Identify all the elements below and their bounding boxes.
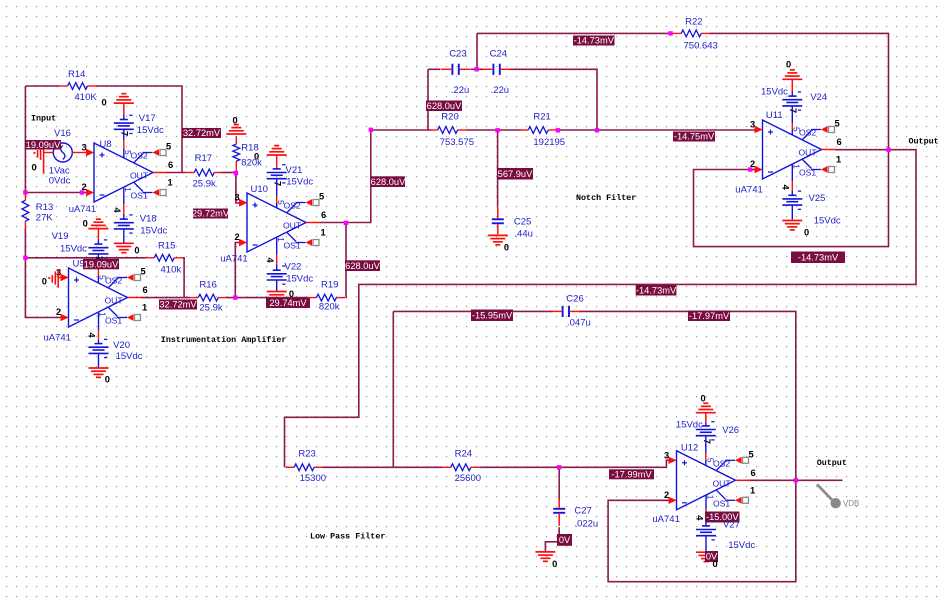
bias voltage label 628.0uV [371, 176, 406, 187]
junction R20/R21/C25 node [495, 128, 499, 132]
resistor R24 [442, 464, 479, 471]
svg-text:15Vdc: 15Vdc [116, 351, 143, 362]
svg-text:4: 4 [781, 185, 791, 191]
wire U12 pin4 to V27 [705, 495, 707, 509]
wire R16 to R19 row [226, 297, 307, 299]
svg-text:628.0uV: 628.0uV [427, 101, 462, 111]
ground 0 net above V21 [267, 146, 287, 155]
svg-text:5: 5 [706, 458, 716, 463]
svg-text:6: 6 [143, 285, 148, 295]
bias voltage label 0V [557, 534, 572, 546]
svg-text:29.72mV: 29.72mV [192, 209, 230, 219]
svg-text:0: 0 [786, 60, 791, 70]
svg-text:OUT: OUT [105, 296, 124, 306]
svg-text:R22: R22 [685, 17, 702, 28]
svg-text:1: 1 [276, 237, 286, 242]
junction U10 out / R19 [344, 221, 348, 225]
svg-text:0: 0 [102, 98, 107, 108]
probe VDB [817, 484, 859, 508]
svg-text:.047u: .047u [567, 318, 591, 329]
svg-text:2: 2 [664, 490, 669, 500]
svg-text:6: 6 [837, 137, 842, 147]
wire V24 to U11 pin7 [791, 106, 793, 123]
bias voltage label -14.75mV [673, 132, 715, 142]
svg-text:5: 5 [835, 119, 840, 129]
DC source V22 [267, 266, 287, 284]
bias voltage label 628.0uV [426, 101, 462, 112]
svg-text:C25: C25 [514, 217, 531, 228]
svg-text:V25: V25 [809, 193, 826, 204]
wire V19 to U9 pin7 [97, 254, 99, 268]
svg-text:Output: Output [817, 458, 847, 468]
ground 0 net above V24 [782, 70, 802, 79]
DC source V18 [114, 215, 134, 233]
svg-text:1: 1 [142, 303, 147, 313]
junction R24/C27 node [557, 465, 561, 469]
svg-text:-14.73mV: -14.73mV [798, 252, 839, 262]
wire R21 to U11 pin3 [556, 129, 755, 131]
svg-text:6: 6 [168, 160, 173, 170]
junction C23/C24 node [474, 67, 478, 71]
svg-text:OUT: OUT [130, 171, 149, 181]
svg-text:2: 2 [235, 232, 240, 242]
AC source V16 [34, 143, 95, 174]
svg-text:15Vdc: 15Vdc [140, 226, 167, 237]
svg-text:6: 6 [321, 210, 326, 220]
wire U12 pin3 arrow [669, 457, 677, 464]
wire U10 pin3 arrow [239, 199, 247, 206]
svg-text:R19: R19 [321, 280, 338, 291]
svg-text:5: 5 [141, 267, 146, 277]
svg-text:V20: V20 [113, 340, 130, 351]
svg-text:-17.99mV: -17.99mV [611, 470, 652, 480]
ground 0 below V22 [267, 291, 287, 293]
ground 0 net above V17 [114, 94, 134, 103]
svg-text:0: 0 [83, 219, 88, 229]
wire U11 pin2 arrow [755, 166, 763, 173]
svg-text:uA741: uA741 [44, 333, 71, 344]
DC source V17 [114, 115, 134, 133]
bias voltage label 0V [705, 551, 718, 562]
svg-text:1: 1 [321, 228, 326, 238]
svg-text:0V: 0V [559, 535, 571, 545]
svg-text:V27: V27 [723, 520, 740, 531]
svg-text:3: 3 [750, 120, 755, 130]
junction U8 out / R18 / U10 pin3 [234, 171, 238, 175]
source 0V at U9 pin3 [48, 269, 68, 288]
wire U12 pin2 arrow [669, 497, 677, 504]
bias voltage label -14.73mV [636, 285, 677, 296]
svg-text:15300: 15300 [300, 473, 326, 484]
svg-text:628.0uV: 628.0uV [371, 177, 406, 187]
wire U12 output row [749, 479, 843, 481]
bias voltage label 567.9uV [497, 168, 533, 180]
svg-text:VDB: VDB [843, 499, 859, 508]
svg-text:1: 1 [750, 485, 755, 495]
ground 0 net above V26 [696, 403, 716, 412]
resistor R19 [308, 294, 345, 301]
wire U9 pin4 to V20 [98, 313, 100, 330]
svg-text:.22u: .22u [491, 85, 510, 96]
bias voltage label 32.72mV [159, 300, 197, 310]
svg-text:5: 5 [166, 142, 171, 152]
svg-text:R14: R14 [68, 69, 85, 80]
svg-text:25600: 25600 [455, 473, 481, 484]
svg-text:15Vdc: 15Vdc [60, 244, 87, 255]
wire R15 to U9 out row [183, 258, 184, 298]
svg-text:OUT: OUT [283, 221, 302, 231]
wire U11 pin4 to V25 [791, 165, 793, 181]
ground 0 net above V19 [88, 219, 108, 228]
svg-text:0: 0 [42, 277, 47, 287]
wire V22 to ground [276, 280, 278, 292]
svg-text:410k: 410k [161, 265, 182, 276]
svg-text:C23: C23 [449, 49, 466, 60]
wire U8 output row [166, 172, 186, 174]
svg-text:0: 0 [32, 163, 37, 173]
svg-text:4: 4 [87, 333, 97, 339]
wire R18 bottom to node [235, 170, 237, 173]
resistor R22 [673, 30, 710, 37]
ground 0 net above R18 [226, 125, 246, 134]
bias voltage label 29.72mV [192, 209, 230, 219]
svg-text:7: 7 [702, 439, 712, 444]
svg-text:27K: 27K [36, 213, 54, 224]
svg-text:R24: R24 [455, 449, 472, 460]
svg-text:1: 1 [706, 495, 716, 500]
junction top row / R22 [668, 31, 672, 35]
wire top row to R22 [477, 32, 672, 34]
svg-text:15Vdc: 15Vdc [286, 177, 313, 188]
svg-text:C26: C26 [566, 294, 583, 305]
svg-text:OS1: OS1 [284, 241, 301, 251]
wire V26 ground stub [705, 413, 707, 423]
wire R22 to right vertical [694, 33, 889, 246]
svg-text:R20: R20 [441, 112, 458, 123]
bias voltage label -17.97mV [688, 311, 730, 322]
wire U11 pin3 arrow [755, 126, 763, 133]
resistor R17 [186, 169, 223, 176]
svg-text:-15.95mV: -15.95mV [472, 310, 513, 320]
DC source V19 [88, 240, 108, 258]
svg-text:R15: R15 [158, 241, 175, 252]
wire C23-C24 node [471, 68, 484, 70]
svg-text:V16: V16 [54, 128, 71, 139]
svg-text:15Vdc: 15Vdc [286, 274, 313, 285]
svg-text:4: 4 [695, 515, 705, 521]
svg-text:29.74mV: 29.74mV [269, 298, 307, 308]
DC source V25 [782, 191, 802, 209]
svg-text:5: 5 [98, 275, 108, 280]
resistor R15 [146, 254, 183, 261]
svg-text:R16: R16 [199, 280, 216, 291]
svg-text:V18: V18 [140, 214, 157, 225]
bias voltage label -15.95mV [471, 310, 513, 322]
wire V25 to ground [791, 205, 793, 220]
junction U9 out / R16 / U10 pin2 [233, 295, 237, 299]
svg-text:0: 0 [713, 559, 718, 569]
junction U11 out node [886, 148, 890, 152]
svg-text:25.9k: 25.9k [193, 179, 216, 190]
svg-text:820k: 820k [319, 302, 340, 313]
wire U10 pin3 drop [236, 173, 240, 204]
svg-text:0: 0 [105, 375, 110, 385]
svg-text:-17.97mV: -17.97mV [689, 311, 730, 321]
wire C23 left stub [428, 68, 441, 70]
resistor R21 [520, 127, 557, 134]
ground 0 below C25 [488, 235, 508, 244]
svg-text:19.09uV: 19.09uV [84, 259, 119, 269]
bias voltage label 628.0uV [345, 260, 381, 271]
svg-text:3: 3 [664, 450, 669, 460]
wire U9 pin2 arrow [61, 314, 69, 321]
junction input net / U8 pin2 [23, 190, 27, 194]
wire V21 ground stub [276, 155, 278, 168]
svg-text:25.9k: 25.9k [199, 303, 222, 314]
svg-text:3: 3 [235, 193, 240, 203]
capacitor C27 [553, 499, 565, 526]
wire U10 output row [320, 130, 431, 223]
wire V18 to ground [123, 229, 125, 243]
wire U8 pin4 to V18 [123, 188, 125, 204]
wire R20 to R21 [466, 129, 521, 131]
DC source V21 [267, 165, 287, 183]
svg-text:Low Pass Filter: Low Pass Filter [310, 532, 385, 542]
svg-text:.22u: .22u [451, 85, 470, 96]
svg-text:V21: V21 [286, 165, 303, 176]
svg-text:uA741: uA741 [69, 204, 96, 215]
svg-text:6: 6 [751, 468, 756, 478]
svg-text:.44u: .44u [514, 229, 533, 240]
wire V17 ground stub [123, 103, 125, 114]
svg-text:-14.75mV: -14.75mV [674, 132, 715, 142]
wire C27 branch top [558, 467, 560, 499]
svg-text:OS1: OS1 [131, 191, 148, 201]
op-amp U11 [750, 108, 842, 191]
svg-text:753.575: 753.575 [440, 137, 474, 148]
junction C24 branch node [595, 128, 599, 132]
wire V19 ground stub [97, 229, 99, 240]
svg-text:192195: 192195 [533, 137, 565, 148]
op-amp U12 [664, 439, 756, 522]
junction U10 out corner [369, 128, 373, 132]
bias voltage label -14.73mV [573, 36, 615, 46]
wire R19 to vertical riser [345, 223, 347, 298]
svg-text:15Vdc: 15Vdc [728, 540, 755, 551]
svg-text:uA741: uA741 [735, 185, 762, 196]
svg-text:U12: U12 [681, 443, 698, 454]
svg-text:410K: 410K [75, 92, 98, 103]
svg-text:567.9uV: 567.9uV [498, 169, 533, 179]
op-amp U9 [56, 256, 148, 339]
bias voltage label -15.00V [705, 512, 740, 523]
svg-text:32.72mV: 32.72mV [183, 128, 221, 138]
wire caps node to top row [476, 33, 478, 69]
wire C26 row right feedback loop [579, 311, 796, 581]
svg-text:U8: U8 [100, 139, 112, 150]
resistor R13 [22, 192, 29, 229]
svg-text:5: 5 [319, 192, 324, 202]
resistor R23 [286, 464, 323, 471]
wire R14 top row [25, 85, 59, 87]
svg-text:4: 4 [265, 258, 275, 264]
svg-text:Output: Output [909, 137, 939, 147]
svg-text:1: 1 [836, 155, 841, 165]
wire C25 branch [497, 131, 499, 206]
wire V17 to pin7 [123, 115, 125, 120]
bias voltage label 19.09uV [25, 140, 61, 150]
svg-text:uA741: uA741 [652, 514, 679, 525]
svg-text:OS1: OS1 [799, 168, 816, 178]
op-amp U10 [235, 181, 327, 264]
svg-text:Notch Filter: Notch Filter [576, 193, 636, 203]
svg-text:OS1: OS1 [105, 316, 122, 326]
wire U10 pin2 arrow [239, 239, 247, 246]
svg-text:V22: V22 [285, 262, 302, 273]
op-amp U8 [82, 131, 174, 214]
wire U8 pin2 from input net [25, 192, 86, 194]
wire left vertical input net upper [24, 86, 26, 194]
svg-text:750.643: 750.643 [684, 41, 718, 52]
svg-text:5: 5 [749, 449, 754, 459]
svg-text:R21: R21 [533, 112, 550, 123]
resistor R20 [429, 127, 466, 134]
svg-text:Instrumentation Amplifier: Instrumentation Amplifier [161, 335, 287, 345]
svg-text:V26: V26 [722, 425, 739, 436]
svg-text:1: 1 [168, 178, 173, 188]
junction input net / R15 row [23, 256, 27, 260]
capacitor C23 [441, 64, 470, 75]
wire left vertical input net lower [25, 228, 60, 318]
svg-text:15Vdc: 15Vdc [676, 420, 703, 431]
wire V27 to ground [705, 536, 707, 553]
wire C24 right to down [511, 69, 598, 130]
ground 0 below V25 [782, 221, 802, 230]
resistor R18 [233, 136, 240, 169]
ground 0 below V18 [114, 243, 134, 252]
wire U11 output row [285, 150, 917, 468]
wire V21 to U10 pin7 [276, 179, 278, 196]
svg-text:32.72mV: 32.72mV [159, 300, 197, 310]
wire R24 to C27 node [479, 460, 668, 467]
svg-text:V17: V17 [139, 113, 156, 124]
bias voltage label 19.09uV [83, 259, 119, 270]
svg-text:uA741: uA741 [220, 254, 247, 265]
svg-text:5: 5 [276, 200, 286, 205]
svg-text:0: 0 [254, 152, 259, 162]
bias voltage label 29.74mV [266, 298, 310, 308]
bias voltage label -17.99mV [609, 469, 654, 479]
svg-text:U10: U10 [251, 184, 268, 195]
wire C26 row left [393, 310, 552, 312]
svg-text:V19: V19 [52, 231, 69, 242]
wire V20 to ground [98, 353, 100, 368]
bias voltage label -14.73mV [791, 252, 845, 264]
svg-text:15Vdc: 15Vdc [814, 216, 841, 227]
capacitor C24 [482, 64, 511, 75]
wire V26 to U12 pin7 [705, 436, 707, 453]
svg-text:OS1: OS1 [713, 498, 730, 508]
svg-text:Input: Input [31, 114, 56, 124]
DC source V24 [782, 92, 802, 110]
junction R21 right node [556, 128, 560, 132]
svg-text:3: 3 [82, 143, 87, 153]
DC source V27 [696, 522, 716, 540]
junction U11 pin2 node [748, 167, 752, 171]
wire LPF feedback vertical [392, 311, 394, 467]
junction U8 pin2 node [80, 190, 84, 194]
svg-text:R13: R13 [36, 202, 53, 213]
svg-text:0: 0 [134, 246, 139, 256]
wire V24 ground stub [791, 79, 793, 92]
svg-text:0: 0 [552, 559, 557, 569]
wire U8 pin2 arrow [86, 189, 94, 196]
svg-text:0: 0 [289, 289, 294, 299]
svg-text:C24: C24 [490, 49, 507, 60]
ground 0 below V20 [89, 368, 109, 377]
DC source V20 [89, 339, 109, 357]
resistor R16 [190, 294, 227, 301]
svg-text:15Vdc: 15Vdc [761, 87, 788, 98]
bias voltage label 32.72mV [182, 128, 221, 138]
wire U9 output row [141, 297, 190, 299]
resistor R14 [59, 83, 96, 90]
svg-text:.022u: .022u [574, 519, 598, 530]
svg-text:-14.73mV: -14.73mV [574, 36, 615, 46]
svg-text:U11: U11 [766, 110, 783, 121]
wire R17 to U10 pin3 [221, 172, 236, 174]
wire C27 to ground jog [545, 527, 559, 552]
svg-text:R23: R23 [298, 449, 315, 460]
DC source V26 [696, 422, 716, 440]
junction U12 out / feedback [794, 478, 798, 482]
svg-text:OUT: OUT [799, 148, 818, 158]
svg-text:15Vdc: 15Vdc [137, 125, 164, 136]
svg-text:4: 4 [112, 208, 122, 214]
svg-text:7: 7 [273, 181, 283, 186]
capacitor C25 [492, 206, 504, 234]
svg-text:0: 0 [701, 394, 706, 404]
svg-text:C27: C27 [574, 506, 591, 517]
svg-text:-14.73mV: -14.73mV [636, 285, 677, 295]
ground 0 below V27 [696, 552, 716, 561]
wire R23 row to R24 [322, 466, 443, 468]
svg-text:0: 0 [804, 228, 809, 238]
svg-text:0Vdc: 0Vdc [49, 176, 71, 187]
wire R14 to U8 output vertical [96, 86, 182, 173]
svg-text:V24: V24 [810, 92, 827, 103]
capacitor C26 [551, 306, 580, 317]
svg-text:2: 2 [56, 307, 61, 317]
svg-text:19.09uV: 19.09uV [26, 140, 61, 150]
svg-text:R17: R17 [195, 153, 212, 164]
svg-text:0: 0 [504, 243, 509, 253]
svg-text:OUT: OUT [713, 478, 732, 488]
wire U10 pin4 to V22 [276, 237, 278, 254]
svg-text:628.0uV: 628.0uV [345, 261, 380, 271]
ground 0 below C27 [535, 552, 555, 561]
wire notch caps left vertical [427, 69, 429, 130]
wire R15 row from input net [25, 257, 145, 259]
wire U10 pin2 branch [235, 243, 239, 298]
